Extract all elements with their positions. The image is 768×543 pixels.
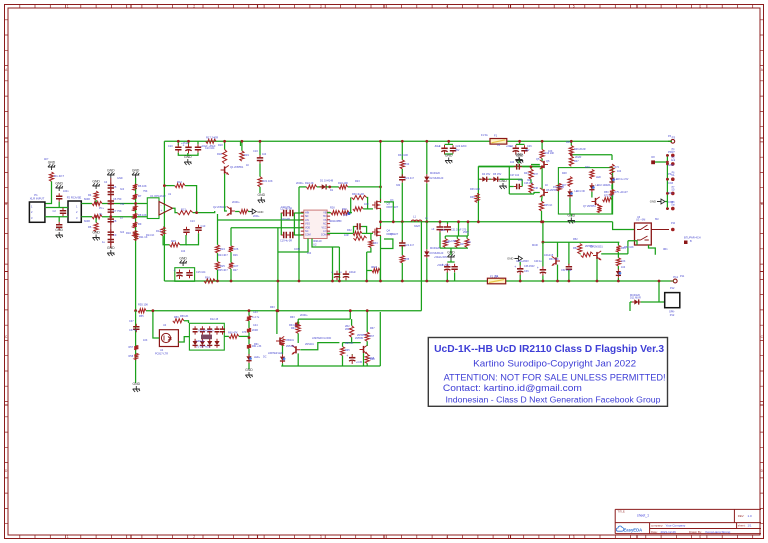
svg-text:R26: R26 bbox=[234, 247, 239, 251]
polarized capacitor C14 bbox=[176, 272, 182, 274]
LED LED6 bbox=[616, 271, 621, 275]
resistor R67 bbox=[365, 332, 369, 341]
svg-text:P12: P12 bbox=[670, 313, 675, 317]
resistor R16 bbox=[204, 279, 215, 283]
wire bbox=[401, 222, 403, 243]
wire bbox=[445, 143, 454, 145]
svg-text:R58: R58 bbox=[129, 355, 134, 358]
svg-text:GND: GND bbox=[257, 210, 263, 214]
svg-text:F1: F1 bbox=[494, 134, 498, 138]
wire bbox=[467, 222, 469, 236]
wire input link 2 bbox=[45, 216, 68, 218]
svg-text:0R33: 0R33 bbox=[371, 266, 378, 269]
wire feedback box left edge bbox=[163, 141, 165, 281]
wire VS sense bbox=[312, 239, 339, 248]
svg-text:+50uF+50V: +50uF+50V bbox=[437, 264, 450, 267]
svg-text:LIMITER LED: LIMITER LED bbox=[268, 352, 283, 355]
wire comparator node bbox=[299, 186, 306, 188]
junction bbox=[392, 220, 395, 223]
junction bbox=[542, 241, 545, 244]
wire comparator A to IC bbox=[218, 219, 304, 221]
svg-text:GND: GND bbox=[445, 154, 453, 158]
svg-text:C44: C44 bbox=[253, 324, 258, 327]
wire bbox=[568, 242, 570, 265]
junction bbox=[134, 215, 137, 218]
svg-text:R25: R25 bbox=[220, 264, 225, 268]
wire bbox=[326, 186, 339, 188]
wire bbox=[297, 319, 299, 324]
junction bbox=[401, 280, 404, 283]
svg-text:C19 4u-0R: C19 4u-0R bbox=[280, 240, 292, 243]
svg-text:75K: 75K bbox=[143, 190, 148, 193]
svg-text:R59: R59 bbox=[174, 316, 179, 319]
junction bbox=[666, 154, 669, 157]
svg-text:R45 1K: R45 1K bbox=[544, 204, 553, 207]
transistor Q6 bbox=[543, 189, 545, 196]
svg-text:604R: 604R bbox=[84, 198, 90, 201]
resistor R28 bbox=[331, 211, 340, 215]
svg-text:U1 OPA1612: U1 OPA1612 bbox=[150, 194, 166, 198]
svg-text:R24: R24 bbox=[220, 247, 225, 251]
svg-text:Q7 2N5551: Q7 2N5551 bbox=[583, 205, 596, 208]
svg-text:PC817-LTR: PC817-LTR bbox=[155, 352, 168, 355]
svg-text:C9: C9 bbox=[113, 233, 117, 237]
svg-text:D2 MUR120: D2 MUR120 bbox=[430, 177, 444, 180]
junction bbox=[530, 165, 533, 168]
svg-text:LIMITER FLOOD: LIMITER FLOOD bbox=[312, 337, 331, 340]
svg-text:2: 2 bbox=[193, 5, 195, 9]
wire stub bbox=[667, 154, 669, 156]
wire bbox=[448, 141, 450, 144]
wire bbox=[363, 353, 365, 366]
wire signal+ bbox=[81, 203, 92, 205]
svg-text:R63: R63 bbox=[290, 316, 295, 319]
transistor Q7 bbox=[595, 198, 597, 205]
svg-text:R21 10K: R21 10K bbox=[263, 179, 273, 183]
svg-text:R30 4k-0R: R30 4k-0R bbox=[352, 193, 364, 196]
wire bbox=[521, 179, 523, 186]
svg-text:D1 1N4148: D1 1N4148 bbox=[320, 179, 334, 183]
diode D13 bbox=[200, 341, 205, 345]
svg-text:R14 1K: R14 1K bbox=[146, 234, 155, 237]
pin P7 bbox=[671, 192, 675, 196]
svg-text:R7: R7 bbox=[138, 194, 142, 198]
wire stub bbox=[667, 178, 669, 180]
svg-text:LED: LED bbox=[596, 176, 601, 179]
wire bbox=[570, 214, 572, 217]
wire bbox=[336, 270, 338, 272]
resistor R24 bbox=[215, 245, 219, 253]
svg-text:R64: R64 bbox=[291, 327, 296, 330]
LED LED4 glint bbox=[249, 357, 252, 360]
svg-text:3: 3 bbox=[320, 535, 322, 539]
svg-text:25V: 25V bbox=[455, 149, 460, 152]
svg-text:750: 750 bbox=[120, 203, 125, 206]
resistor R50 bbox=[597, 206, 601, 213]
svg-text:R16: R16 bbox=[205, 275, 210, 279]
svg-text:PS-: PS- bbox=[668, 173, 672, 176]
wire bbox=[541, 159, 543, 161]
wire bbox=[446, 273, 448, 282]
diode D12 bbox=[193, 341, 198, 345]
resistor R42 bbox=[465, 239, 469, 248]
wire bbox=[224, 141, 226, 149]
resistor R54 bbox=[616, 245, 620, 252]
svg-text:+: + bbox=[161, 209, 163, 213]
wire speaker drop bbox=[658, 281, 660, 302]
junction bbox=[248, 309, 251, 312]
svg-text:3n0: 3n0 bbox=[120, 231, 125, 234]
junction bbox=[540, 220, 543, 223]
wire bbox=[349, 312, 351, 319]
wire switch stub bbox=[649, 245, 656, 255]
svg-text:GND: GND bbox=[92, 180, 100, 184]
wire bbox=[569, 198, 571, 214]
wire IC LIN bbox=[294, 234, 303, 236]
wire protect top rail bbox=[543, 241, 620, 243]
wire bbox=[440, 247, 468, 249]
wire bbox=[297, 333, 299, 343]
svg-text:C36 450V: C36 450V bbox=[524, 265, 535, 268]
svg-text:R27: R27 bbox=[233, 269, 238, 272]
junction bbox=[195, 211, 198, 214]
svg-text:GND: GND bbox=[507, 257, 513, 261]
wire bbox=[95, 200, 97, 204]
svg-text:MUR120: MUR120 bbox=[430, 247, 440, 250]
junction bbox=[425, 220, 428, 223]
capacitor C10 bbox=[108, 232, 114, 235]
svg-text:R52: R52 bbox=[573, 247, 578, 250]
wire Q6 base bbox=[534, 193, 540, 195]
resistor R60 bbox=[229, 334, 239, 338]
svg-text:PS+: PS+ bbox=[668, 151, 673, 154]
capacitor C24 bbox=[450, 148, 456, 151]
svg-text:+: + bbox=[537, 266, 539, 270]
svg-text:2N5551: 2N5551 bbox=[355, 337, 364, 340]
junction bbox=[223, 140, 226, 143]
svg-text:R26: R26 bbox=[233, 254, 238, 257]
resistor R33 bbox=[369, 240, 373, 248]
resistor R6 bbox=[133, 184, 137, 190]
junction bbox=[666, 163, 669, 166]
wire bbox=[184, 321, 189, 323]
svg-text:1.0: 1.0 bbox=[748, 514, 753, 518]
junction bbox=[439, 220, 442, 223]
wire bbox=[95, 217, 97, 223]
wire bbox=[188, 141, 190, 144]
svg-text:R36: R36 bbox=[470, 196, 475, 199]
wire lower source bbox=[380, 236, 382, 281]
pin P11 bbox=[671, 280, 674, 282]
svg-text:2N5401: 2N5401 bbox=[305, 343, 314, 346]
wire bbox=[579, 253, 582, 255]
svg-text:4: 4 bbox=[446, 535, 448, 539]
polarized capacitor C46 bbox=[334, 273, 340, 275]
svg-text:Contact: kartino.id@gmail.com: Contact: kartino.id@gmail.com bbox=[443, 382, 582, 393]
resistor R7 bbox=[133, 194, 137, 200]
svg-text:C22 4n7: C22 4n7 bbox=[405, 244, 415, 247]
junction bbox=[248, 336, 251, 339]
wire cap box right bbox=[293, 213, 295, 235]
net flag BTL bbox=[684, 241, 688, 245]
wire bbox=[611, 196, 613, 214]
wire bbox=[617, 242, 619, 245]
resistor R77 bbox=[247, 328, 251, 332]
wire clamp link bbox=[500, 178, 522, 180]
wire limiter left column bbox=[135, 311, 137, 383]
junction bbox=[152, 309, 155, 312]
wire bbox=[248, 332, 250, 344]
junction bbox=[542, 220, 545, 223]
wire opto emitter to clamp bbox=[178, 337, 189, 342]
svg-text:B: B bbox=[5, 202, 7, 206]
wire bbox=[500, 178, 503, 181]
svg-text:MUR: MUR bbox=[532, 244, 538, 247]
svg-text:R52: R52 bbox=[573, 238, 578, 241]
pin P10 bbox=[671, 228, 675, 232]
LED LED5 glint bbox=[283, 357, 286, 360]
diode D5 bbox=[493, 177, 497, 182]
svg-text:+: + bbox=[174, 269, 176, 273]
svg-text:L1: L1 bbox=[413, 215, 416, 219]
svg-text:R24 4K7: R24 4K7 bbox=[218, 254, 228, 257]
wire gate loop down bbox=[367, 198, 368, 209]
wire stub bbox=[667, 192, 669, 194]
resistor R18 bbox=[223, 150, 227, 164]
resistor R58 bbox=[134, 353, 138, 360]
polarized capacitor C49 bbox=[540, 269, 546, 271]
svg-text:+50uF+50V: +50uF+50V bbox=[434, 256, 447, 259]
wire upper drain bbox=[380, 141, 382, 203]
wire divider A top bbox=[217, 214, 219, 245]
wire limiter link bbox=[298, 318, 350, 320]
svg-text:LED3 A-1.5V: LED3 A-1.5V bbox=[615, 178, 629, 181]
svg-text:R37: R37 bbox=[534, 173, 539, 176]
wire bbox=[401, 263, 403, 281]
svg-text:C43: C43 bbox=[253, 311, 258, 314]
svg-text:104: 104 bbox=[307, 252, 312, 255]
wire bbox=[259, 163, 261, 176]
svg-text:UcD-1K--HB UcD IR2110 Class D: UcD-1K--HB UcD IR2110 Class D Flagship V… bbox=[434, 344, 664, 355]
wire bbox=[351, 337, 353, 342]
svg-text:R47: R47 bbox=[574, 160, 579, 163]
junction bbox=[541, 165, 544, 168]
wire bbox=[466, 236, 468, 239]
wire snubber top bbox=[401, 141, 403, 160]
wire signal- bbox=[81, 216, 92, 218]
fuse F1 bbox=[490, 139, 507, 145]
svg-text:10K: 10K bbox=[548, 150, 553, 153]
svg-text:2N5401: 2N5401 bbox=[286, 339, 295, 342]
resistor R31 bbox=[353, 207, 363, 211]
polarized capacitor C34 bbox=[444, 266, 450, 268]
inductor L1 bbox=[411, 220, 422, 222]
junction bbox=[425, 280, 428, 283]
svg-text:D5 15V: D5 15V bbox=[493, 173, 502, 176]
pin P6 bbox=[671, 177, 675, 181]
wire bbox=[672, 280, 675, 282]
svg-text:R67: R67 bbox=[370, 327, 375, 330]
optocoupler U4 PC817 bbox=[159, 330, 178, 347]
svg-text:-60uF: -60uF bbox=[434, 145, 441, 148]
capacitor C48 bbox=[357, 223, 360, 229]
svg-text:MUR120: MUR120 bbox=[630, 294, 640, 297]
capacitor C17 bbox=[284, 210, 287, 216]
wire bbox=[541, 168, 543, 189]
svg-text:GND: GND bbox=[48, 161, 56, 165]
resistor R10 bbox=[133, 222, 137, 228]
svg-text:4K7: 4K7 bbox=[44, 158, 49, 161]
svg-text:6M: 6M bbox=[655, 218, 658, 221]
diode D15 bbox=[214, 341, 219, 345]
wire cap box left bbox=[280, 213, 282, 235]
junction bbox=[519, 280, 522, 283]
capacitor C38 bbox=[193, 329, 198, 332]
wire bbox=[177, 141, 179, 145]
wire to BTL switch bbox=[613, 222, 635, 230]
wire bbox=[58, 202, 60, 208]
wire bbox=[530, 167, 532, 169]
svg-text:NC: NC bbox=[323, 223, 327, 226]
decoupling box bbox=[175, 268, 195, 282]
wire bbox=[630, 301, 632, 303]
svg-text:3n0: 3n0 bbox=[120, 188, 125, 191]
svg-text:GND: GND bbox=[117, 177, 123, 180]
svg-text:C27 104: C27 104 bbox=[510, 174, 520, 177]
wire comparator B to IC bbox=[231, 227, 304, 229]
svg-text:TITLE:: TITLE: bbox=[618, 510, 626, 514]
junction bbox=[457, 220, 460, 223]
wire clamp box left bbox=[508, 167, 510, 194]
wire limiter top rail bbox=[146, 310, 421, 312]
svg-text:HIN: HIN bbox=[305, 212, 309, 215]
resistor R69 0R33 bbox=[372, 268, 380, 272]
junction bbox=[666, 192, 669, 195]
svg-text:GND: GND bbox=[132, 169, 140, 173]
svg-text:Your Company: Your Company bbox=[666, 524, 686, 528]
svg-text:D4 15V: D4 15V bbox=[482, 173, 491, 176]
wire bbox=[519, 141, 521, 144]
polarized capacitor C47 bbox=[343, 273, 349, 275]
junction bbox=[401, 220, 404, 223]
wire bbox=[338, 247, 340, 281]
MOSFET Q3 IRFP4227 bbox=[372, 202, 375, 209]
wire bbox=[186, 233, 199, 245]
wire bbox=[450, 260, 452, 262]
transistor Q2 bbox=[230, 207, 232, 214]
wire bbox=[530, 193, 532, 194]
resistor R65 bbox=[340, 347, 344, 356]
svg-text:VDD: VDD bbox=[305, 226, 310, 229]
svg-text:104: 104 bbox=[617, 170, 622, 173]
wire bbox=[317, 186, 322, 188]
svg-text:10R: 10R bbox=[445, 241, 450, 244]
svg-text:Gnd: Gnd bbox=[671, 160, 676, 162]
transistor Q8 bbox=[596, 252, 598, 259]
junction bbox=[379, 220, 382, 223]
svg-text:R12: R12 bbox=[177, 180, 182, 184]
wire bbox=[241, 141, 243, 151]
wire bbox=[342, 356, 344, 366]
svg-text:C51 B-0R: C51 B-0R bbox=[561, 269, 572, 272]
svg-text:VS: VS bbox=[323, 219, 327, 222]
diode D3 MUR120 bbox=[424, 251, 429, 255]
notes box bbox=[428, 338, 667, 407]
svg-text:LIN: LIN bbox=[305, 219, 309, 222]
wire bbox=[557, 242, 559, 257]
wire bbox=[611, 184, 613, 189]
wire bbox=[259, 187, 261, 193]
resistor R17 bbox=[206, 139, 216, 143]
wire header bus bbox=[666, 155, 668, 208]
svg-text:10R: 10R bbox=[343, 214, 348, 217]
svg-text:R32: R32 bbox=[347, 229, 352, 232]
svg-text:R18: R18 bbox=[217, 152, 222, 156]
svg-text:R34 10R: R34 10R bbox=[398, 154, 408, 157]
svg-text:GND: GND bbox=[92, 231, 100, 235]
junction bbox=[187, 140, 190, 143]
svg-text:IR2110PBF: IR2110PBF bbox=[329, 220, 342, 223]
wire bbox=[163, 236, 170, 245]
junction bbox=[477, 220, 480, 223]
svg-text:Out: Out bbox=[671, 204, 675, 207]
wire bbox=[180, 235, 186, 245]
svg-text:IN-: IN- bbox=[99, 213, 103, 216]
svg-text:10R: 10R bbox=[518, 179, 523, 182]
resistor R48 bbox=[568, 177, 572, 187]
svg-text:R8 10K: R8 10K bbox=[138, 213, 147, 217]
svg-text:CN5: CN5 bbox=[668, 201, 674, 204]
resistor R52 bbox=[578, 244, 582, 254]
wire bbox=[445, 235, 468, 237]
junction bbox=[541, 140, 544, 143]
resistor R64 bbox=[296, 324, 300, 333]
svg-text:3W: 3W bbox=[467, 241, 471, 244]
junction bbox=[518, 140, 521, 143]
svg-text:XLR INPUT: XLR INPUT bbox=[30, 197, 45, 201]
resistor R27 bbox=[229, 263, 233, 269]
svg-text:DC: DC bbox=[263, 356, 267, 359]
svg-text:C2: C2 bbox=[53, 209, 57, 213]
wire to lower gate bbox=[362, 232, 373, 234]
wire bbox=[248, 363, 250, 369]
capacitor C28 bbox=[517, 184, 520, 190]
junction bbox=[331, 280, 334, 283]
capacitor C11 bbox=[108, 240, 114, 243]
wire limiter bottom rail bbox=[281, 365, 380, 367]
svg-text:SD: SD bbox=[305, 215, 309, 218]
diode D1 bbox=[322, 184, 326, 189]
wire zobel top bbox=[478, 165, 540, 167]
svg-text:LO: LO bbox=[323, 230, 326, 233]
polarized capacitor C11 bbox=[185, 146, 191, 148]
junction bbox=[134, 309, 137, 312]
wire feedback tap bbox=[164, 185, 174, 187]
wire bbox=[153, 330, 160, 338]
svg-text:GND: GND bbox=[668, 164, 674, 167]
svg-text:Q1 2N5551: Q1 2N5551 bbox=[230, 165, 244, 169]
resistor R1 bbox=[49, 172, 53, 181]
svg-text:R50: R50 bbox=[604, 191, 609, 194]
svg-text:100n: 100n bbox=[63, 190, 69, 193]
svg-text:R65 1K: R65 1K bbox=[345, 342, 354, 345]
svg-text:C6 750: C6 750 bbox=[113, 197, 122, 201]
wire bbox=[516, 143, 525, 145]
wire feedback divider column bbox=[298, 187, 300, 281]
svg-text:COM: COM bbox=[294, 248, 300, 251]
resistor R41 bbox=[455, 239, 459, 248]
svg-text:HO: HO bbox=[323, 215, 327, 218]
